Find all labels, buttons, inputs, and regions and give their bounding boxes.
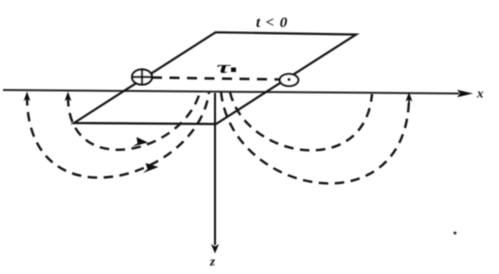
left inner field line: [68, 92, 200, 150]
left outer inline arrow: [143, 163, 159, 173]
x-axis: [3, 90, 473, 98]
svg-text:τ: τ: [217, 58, 231, 77]
plate (parallelogram): [74, 32, 356, 124]
right outer end arrow: [406, 92, 413, 103]
right inner field line: [230, 92, 372, 150]
dipole dashed line: [152, 78, 280, 80]
right outer field line: [221, 92, 409, 183]
label tau0: [217, 58, 237, 77]
svg-text:z: z: [209, 254, 216, 269]
left inner end arrow: [65, 92, 72, 102]
left outer field line: [27, 92, 209, 178]
svg-text:x: x: [476, 86, 484, 101]
left outer end arrow: [24, 92, 31, 102]
positive charge: [132, 69, 152, 84]
ink speck: [454, 232, 457, 235]
z-axis: [211, 93, 219, 254]
svg-text:t<0: t<0: [256, 15, 293, 31]
negative charge (dot): [280, 74, 299, 86]
left inner inline arrow: [133, 137, 149, 147]
